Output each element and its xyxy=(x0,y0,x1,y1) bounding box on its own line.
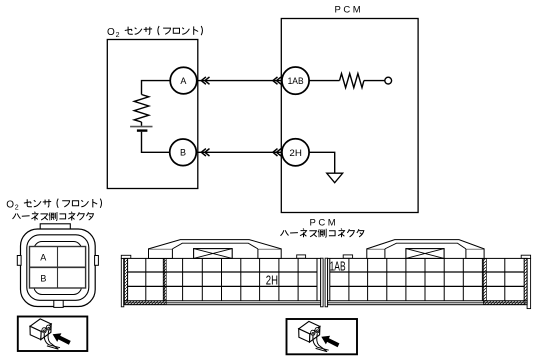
svg-text:B: B xyxy=(180,148,186,158)
connector left lock tab xyxy=(17,256,21,266)
right PCM connector strip xyxy=(325,240,531,309)
connector chevrons near 1AB xyxy=(273,77,281,84)
svg-text:A: A xyxy=(40,252,46,262)
column lines xyxy=(128,258,317,300)
hood ridge outer xyxy=(367,240,484,249)
hood ridge outer xyxy=(149,240,282,249)
connector chevrons near A xyxy=(201,77,209,84)
connector chevrons near B xyxy=(201,149,209,156)
resistor (PCM pull-up zigzag) xyxy=(340,74,364,88)
strip body frame xyxy=(124,258,321,304)
connector terminal grid xyxy=(30,247,86,289)
connector view icon right xyxy=(299,321,340,351)
left end plate xyxy=(121,258,124,307)
PCM internal wire from 2H to ground xyxy=(309,152,335,173)
bottom double edge line xyxy=(124,302,321,304)
svg-text:2H: 2H xyxy=(266,273,278,287)
svg-text:A: A xyxy=(180,76,186,86)
O2 sensor box xyxy=(107,40,198,189)
hood left shoulder xyxy=(149,249,173,259)
label: O2 sensor (front) title above box xyxy=(107,26,202,39)
battery cell symbol xyxy=(130,126,152,128)
svg-text:PCM: PCM xyxy=(310,218,339,229)
svg-text:1AB: 1AB xyxy=(288,76,304,87)
terminal circle B xyxy=(170,139,197,166)
terminal circle A xyxy=(170,67,197,94)
hood ridge inner xyxy=(172,243,258,249)
connector collar xyxy=(34,242,82,295)
column lines xyxy=(330,258,524,300)
row lines xyxy=(330,271,524,273)
icon box left (sensor connector view) xyxy=(18,317,88,352)
left top tab xyxy=(121,255,131,258)
wire resistor to cell xyxy=(141,122,143,126)
hood left shoulder xyxy=(367,249,385,259)
open terminal circle xyxy=(385,77,392,84)
connector chevrons near 2H xyxy=(273,149,281,156)
sensor internal wire from A xyxy=(142,81,171,95)
PCM internal wire from 1AB to resistor xyxy=(309,80,339,82)
terminal circle 1AB xyxy=(282,67,309,94)
hood right shoulder xyxy=(466,249,484,259)
left end plate xyxy=(325,258,328,307)
wire resistor to terminal xyxy=(364,80,385,82)
PCM box xyxy=(281,19,418,213)
hood ridge inner xyxy=(385,243,466,249)
icon box right (PCM connector view) xyxy=(287,319,358,354)
strip body frame xyxy=(328,258,527,304)
terminal circle 2H xyxy=(282,139,309,166)
svg-text:2H: 2H xyxy=(289,148,302,159)
svg-text:PCM: PCM xyxy=(335,5,364,16)
grid bottom line xyxy=(124,300,321,302)
right end plate xyxy=(527,258,531,308)
wire cell to B xyxy=(142,132,170,153)
right top tab xyxy=(521,255,530,258)
connector inner shell xyxy=(27,235,89,300)
svg-text:1AB: 1AB xyxy=(330,260,346,274)
label: O2 sensor harness-side connector (two lines) xyxy=(6,199,101,212)
connector outer shell xyxy=(21,229,96,307)
hatched bottom bar xyxy=(483,301,525,305)
row lines xyxy=(128,271,317,273)
hood X-box xyxy=(406,249,444,259)
svg-text:O: O xyxy=(6,200,14,211)
resistor (sensor heater zigzag) xyxy=(134,95,149,123)
hatched guide bar xyxy=(483,258,486,300)
hood X-box xyxy=(194,249,233,259)
svg-text:B: B xyxy=(40,273,46,283)
svg-text:2: 2 xyxy=(15,205,19,212)
svg-text:2: 2 xyxy=(116,32,120,39)
right end plate xyxy=(321,258,324,307)
wire B to 2H xyxy=(197,151,282,153)
connector view icon left xyxy=(30,319,71,349)
connector bottom tab xyxy=(54,299,63,307)
hatched guide bar left xyxy=(125,258,128,300)
ground symbol xyxy=(327,173,343,183)
grid bottom line xyxy=(328,300,527,302)
svg-text:O: O xyxy=(107,27,115,38)
hatched right bar xyxy=(524,258,527,300)
left PCM connector strip xyxy=(121,240,323,307)
hood right shoulder xyxy=(258,249,281,259)
hatched bottom bar xyxy=(125,301,167,305)
right top tab xyxy=(297,255,306,258)
bottom double edge line xyxy=(328,302,527,304)
left top tab xyxy=(343,255,352,258)
wire A to 1AB xyxy=(197,80,281,82)
hatched guide bar mid xyxy=(163,258,166,300)
O2 sensor connector drawing: top tab xyxy=(40,224,70,229)
connector right lock tab xyxy=(95,256,99,266)
